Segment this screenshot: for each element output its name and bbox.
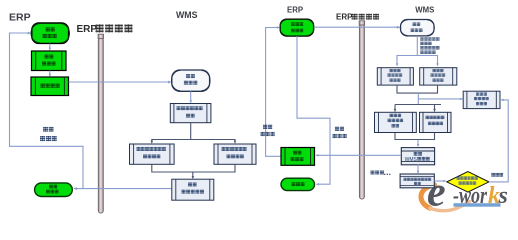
wire: green cyl -> WMS cylinder (crosses bar, right) — [314, 26, 400, 28]
svg-text:WMS: WMS — [176, 10, 198, 20]
feedback loop (right): green box -> up into green cylinder — [266, 28, 281, 157]
box: green process (right, delivery return) — [281, 148, 315, 166]
box: customer PDA confirm receipt — [400, 174, 434, 188]
pill: ERP inbound order (green, left) — [35, 183, 73, 197]
box: BPT pre-delivery pick (right WMS row2 L) — [377, 68, 413, 85]
cylinder: purchase order (green, left) — [32, 23, 69, 43]
box: PC entry (left WMS) — [214, 144, 256, 164]
box: green process 2 (left) — [32, 51, 67, 71]
ERP interface service lifeline bar (left) — [98, 38, 103, 213]
wire: box6 -> diamond — [434, 180, 445, 182]
wire: box5 -> box6 — [417, 165, 419, 174]
box: shelve / confirm inbound (left WMS) — [172, 179, 214, 200]
wire: green cyl down -> pill (right) — [297, 36, 330, 184]
cylinder: ERP delivery order (green, right) — [280, 19, 313, 36]
label: delivering... — [370, 170, 374, 174]
wire: box3 -> WMS cylinder (crosses bar) — [69, 81, 171, 83]
diamond: quantity compare decision — [447, 172, 489, 193]
box: PDA scan (left WMS) — [130, 144, 175, 164]
svg-text:WMS: WMS — [405, 157, 418, 163]
merge wires -> box5 (right) — [395, 133, 435, 140]
box: PDA scan confirm (right row4 L) — [375, 112, 417, 132]
label: return receipt note — [43, 127, 48, 132]
svg-text:ERP: ERP — [287, 5, 303, 14]
wire: diamond -> up -> BPT order box (inconsistent loop) — [489, 100, 508, 182]
pill: outbound order (green, right) — [281, 178, 315, 190]
box: green process 3 (left) — [31, 77, 69, 96]
box: BPT per-order delivery pick (right col) — [463, 91, 500, 108]
wire: junction -> BPT order box — [418, 98, 462, 100]
wire: box2 -> box3 — [49, 71, 51, 77]
label: downstream delivery list — [335, 127, 339, 131]
label: return delivery note (right) — [263, 125, 267, 129]
svg-text:ERP: ERP — [336, 12, 353, 21]
feedback loop wire (left): box -> pill & up to cyl1 — [10, 33, 172, 189]
e-works watermark logo — [421, 170, 508, 216]
split wires: cylinder -> two BPT boxes (right) — [397, 36, 417, 66]
annotation text (4 tiny lines) — [420, 37, 424, 41]
split to PDA / PC confirm boxes — [395, 104, 441, 106]
box: ECS system (left WMS) — [170, 104, 211, 123]
wire: cylinder -> ECS box — [190, 91, 192, 102]
label: inconsistent — [491, 173, 495, 177]
svg-text:ERP: ERP — [9, 12, 31, 24]
cylinder: sales delivery order (WMS, right) — [401, 20, 434, 36]
split wires to PDA / PC boxes (left) — [152, 123, 191, 143]
merge + junction wires (right) — [397, 85, 438, 93]
merge wires to bottom box (left) — [152, 164, 235, 172]
box: PC entry dispatch confirm (right row4 R) — [420, 112, 452, 132]
return wire: box5 -> green box (crosses bar, right) — [316, 154, 401, 156]
ERP interface service lifeline bar (right) — [359, 25, 364, 200]
box: BPT replenish pick (right WMS row2 R) — [420, 68, 457, 85]
cylinder: received data (WMS, left) — [172, 70, 210, 91]
svg-text:ERP: ERP — [77, 24, 98, 35]
svg-text:WMS: WMS — [415, 5, 434, 14]
box: generate WMS outbound order — [401, 148, 434, 165]
wire: cyl1 -> box2 — [49, 44, 51, 50]
